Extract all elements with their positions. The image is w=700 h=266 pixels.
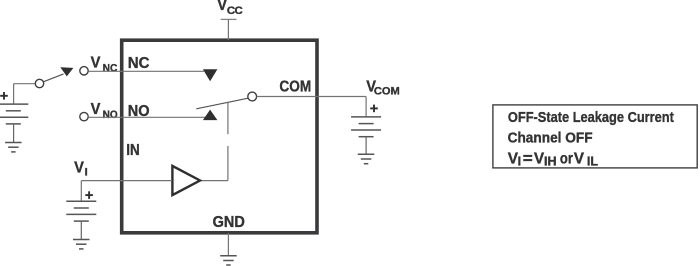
svg-text:=: = xyxy=(523,150,533,167)
svg-text:V: V xyxy=(91,101,101,118)
svg-text:NC: NC xyxy=(128,55,150,72)
svg-text:Channel OFF: Channel OFF xyxy=(508,131,593,147)
svg-text:V: V xyxy=(91,55,101,72)
svg-text:IN: IN xyxy=(126,142,139,159)
svg-text:NO: NO xyxy=(103,109,118,121)
svg-text:OFF-State Leakage Current: OFF-State Leakage Current xyxy=(508,110,674,126)
svg-text:IL: IL xyxy=(587,154,598,168)
svg-text:GND: GND xyxy=(213,214,245,231)
svg-text:V: V xyxy=(574,150,585,167)
svg-text:NC: NC xyxy=(103,63,118,75)
svg-text:COM: COM xyxy=(279,79,311,96)
svg-text:IH: IH xyxy=(544,154,557,168)
svg-text:I: I xyxy=(85,167,88,179)
svg-text:I: I xyxy=(518,154,521,168)
svg-text:NO: NO xyxy=(128,103,150,120)
svg-text:CC: CC xyxy=(227,5,243,17)
svg-text:or: or xyxy=(560,150,573,167)
svg-text:COM: COM xyxy=(374,86,400,98)
svg-text:V: V xyxy=(74,160,84,177)
